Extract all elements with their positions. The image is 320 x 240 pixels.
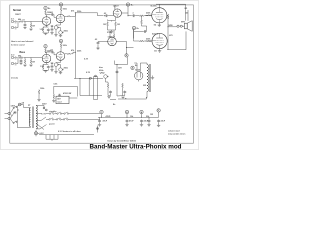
NFB line <box>54 86 78 94</box>
AC plug <box>8 112 10 114</box>
node E <box>125 54 128 57</box>
svg-text:12AX7: 12AX7 <box>113 4 119 7</box>
ground <box>23 27 26 29</box>
ground <box>54 35 57 37</box>
right stack <box>97 126 99 133</box>
ground <box>29 29 32 31</box>
loop wires <box>74 79 103 96</box>
svg-text:In 2: In 2 <box>11 55 14 57</box>
svg-text:470: 470 <box>169 34 172 37</box>
tube V2B <box>56 52 65 61</box>
cap <box>51 65 54 68</box>
resistor mix2 <box>67 53 72 54</box>
svg-text:.02: .02 <box>104 13 107 15</box>
capacitor Cpi <box>105 14 108 17</box>
ground <box>59 72 62 74</box>
cathode cluster <box>43 63 48 64</box>
svg-text:Band-Master Ultra-Phonix mod: Band-Master Ultra-Phonix mod <box>90 144 182 150</box>
wire plate out <box>46 15 51 17</box>
cathode down <box>56 60 61 63</box>
resistor R1 grid <box>19 21 24 23</box>
mid filter <box>116 65 118 97</box>
speaker jack <box>177 25 179 27</box>
svg-text:1M: 1M <box>32 26 35 28</box>
cathode V1B down <box>56 23 61 26</box>
tube V5 6L6 <box>152 8 167 23</box>
jack J1 <box>11 20 16 23</box>
tube V2A <box>42 54 51 63</box>
second chain <box>122 83 124 88</box>
resistor cap chain <box>53 94 55 99</box>
resistor R3 grid-leak <box>30 22 32 24</box>
wire <box>121 6 128 16</box>
svg-text:12AY7: 12AY7 <box>15 13 21 16</box>
resistor mix1 <box>67 16 72 17</box>
node F <box>131 66 134 69</box>
svg-text:6L6GC: 6L6GC <box>152 34 159 36</box>
jack J3 <box>11 56 16 59</box>
svg-text:.02: .02 <box>95 39 98 41</box>
node C <box>126 3 129 6</box>
capacitor C2 coupling <box>51 13 54 16</box>
tube V1B <box>56 14 65 23</box>
riser right <box>133 30 135 39</box>
wires <box>16 58 42 64</box>
main line <box>98 112 159 117</box>
svg-text:Normal: Normal <box>13 10 21 12</box>
svg-text:325V: 325V <box>42 104 47 106</box>
tail resistors <box>108 17 116 21</box>
svg-text:may contain errors: may contain errors <box>168 133 185 136</box>
svg-text:1W: 1W <box>150 114 153 116</box>
svg-text:470Ω 2W: 470Ω 2W <box>63 92 71 95</box>
switch row 1 <box>49 112 54 114</box>
wire to V1B grid <box>54 15 56 18</box>
resistor grid1 <box>146 14 148 16</box>
riser <box>17 108 19 122</box>
wire out right <box>117 42 127 54</box>
PT secondary <box>36 106 37 129</box>
screen bus vertical <box>167 15 168 49</box>
death cap <box>14 111 17 114</box>
svg-text:NFB: NFB <box>169 25 174 27</box>
plate top wire <box>156 4 186 20</box>
svg-text:.02: .02 <box>50 12 53 14</box>
svg-text:power: power <box>49 124 55 126</box>
pot VOL1 <box>54 26 59 30</box>
PT core <box>32 107 34 129</box>
border frame <box>10 5 194 143</box>
svg-text:6.3 V heaters to all tubes: 6.3 V heaters to all tubes <box>58 130 81 133</box>
cap C11 <box>20 59 23 62</box>
svg-text:for best sound: for best sound <box>11 43 25 46</box>
resistor R12 <box>45 48 47 53</box>
PS feed pair <box>94 77 98 100</box>
svg-text:1Ω: 1Ω <box>154 25 157 27</box>
node D <box>132 26 135 29</box>
svg-text:.02: .02 <box>50 50 53 52</box>
wire from node E <box>115 57 128 64</box>
wire to PI <box>75 13 103 16</box>
cap lower path <box>143 30 146 33</box>
resistor R10 <box>19 57 24 59</box>
pot VOL2 <box>54 63 59 67</box>
node A2 <box>59 3 62 6</box>
ground <box>50 33 53 35</box>
svg-text:8Ω: 8Ω <box>185 8 188 10</box>
ground <box>44 33 47 35</box>
cathode ground <box>158 23 160 25</box>
tube V4 PI <box>113 9 121 17</box>
bus bar <box>39 135 94 141</box>
svg-text:6.3V: 6.3V <box>86 72 91 74</box>
ground <box>52 101 55 103</box>
resistor grid leak <box>30 58 32 60</box>
node B1 <box>44 45 47 48</box>
fuse <box>18 103 21 106</box>
NFB box <box>56 96 69 103</box>
stray ground right <box>152 76 154 78</box>
svg-text:How to set mod channel: How to set mod channel <box>11 40 34 43</box>
jack J2 <box>11 26 16 29</box>
resistor plate PI <box>114 5 115 9</box>
cap C3 <box>51 28 54 31</box>
risers above tube <box>110 31 114 38</box>
svg-text:Bass: Bass <box>20 52 26 54</box>
ground <box>50 70 53 72</box>
polarity switch <box>13 122 14 123</box>
pilot lamp <box>34 132 37 135</box>
switch row 2 <box>49 118 54 120</box>
cap drops <box>98 119 101 122</box>
ground <box>19 63 22 65</box>
svg-text:10H: 10H <box>118 68 122 70</box>
wire jacks to grid <box>16 22 42 28</box>
PT HV winding <box>147 65 149 92</box>
speaker <box>184 23 187 29</box>
speaker feed <box>187 10 189 21</box>
wire plate2 out to mix <box>65 13 76 16</box>
vertical coupling lower <box>141 16 143 20</box>
jack J4 <box>11 62 16 65</box>
ground switch <box>13 107 14 108</box>
NFB tap <box>168 26 177 28</box>
tube V3A driver <box>108 37 117 46</box>
svg-text:bias: bias <box>99 67 103 69</box>
resistor plate2 <box>60 43 62 48</box>
plate2 wire long <box>167 31 186 49</box>
cap input <box>98 41 108 43</box>
svg-text:1Ω: 1Ω <box>154 51 157 53</box>
node A1 <box>44 6 47 9</box>
long bus vertical <box>74 13 76 79</box>
resistor R5 plate2 <box>60 6 62 11</box>
junction dot <box>104 15 105 16</box>
svg-text:6.3V: 6.3V <box>40 133 45 135</box>
wire to V2B grid <box>54 52 56 55</box>
svg-text:tremolo: tremolo <box>11 77 19 80</box>
wire PI out right <box>128 15 132 17</box>
ground <box>59 35 62 37</box>
cathode R4 C1 <box>43 25 48 27</box>
cathode ground2 <box>159 49 161 51</box>
wire plate2 out to mix <box>65 52 76 54</box>
wire to 6L6 grid <box>135 14 152 16</box>
svg-text:Drawn by Gerald Weber 6/2015: Drawn by Gerald Weber 6/2015 <box>108 140 137 142</box>
nodes <box>100 110 103 113</box>
resistor R2 plate <box>45 10 47 15</box>
svg-text:6.3V: 6.3V <box>84 59 89 61</box>
capacitor C12 <box>51 51 54 54</box>
svg-text:1M: 1M <box>103 24 106 26</box>
ground <box>54 72 57 74</box>
svg-text:1M: 1M <box>117 24 120 26</box>
outer scan shading <box>0 0 198 149</box>
svg-text:1M: 1M <box>32 62 35 64</box>
capacitor C0 bright <box>24 23 27 26</box>
cluster to tube2 grid <box>134 40 153 42</box>
svg-text:470Ω: 470Ω <box>106 115 111 118</box>
svg-text:12AX7: 12AX7 <box>108 36 114 39</box>
svg-text:6L6GC: 6L6GC <box>151 6 158 8</box>
wire <box>108 15 113 17</box>
rectifier tube <box>135 72 143 80</box>
resistor grid stopper <box>139 15 144 17</box>
tube V6 6L6 <box>152 33 167 48</box>
pot TONE2 <box>59 68 64 72</box>
PT primary <box>29 108 30 126</box>
svg-text:volume mod: volume mod <box>168 131 180 133</box>
node B2 <box>59 39 62 42</box>
ground <box>44 71 47 73</box>
ground <box>23 65 26 67</box>
taps <box>36 106 47 130</box>
svg-text:5E7: 5E7 <box>57 99 60 101</box>
ground <box>29 65 32 67</box>
svg-text:120V: 120V <box>11 106 16 108</box>
pot TONE1 <box>59 31 64 35</box>
resistor R11 <box>24 58 26 60</box>
plate out <box>46 52 51 54</box>
tube V1A <box>42 17 51 26</box>
capacitor Cout1 <box>132 14 135 17</box>
svg-text:standby: standby <box>49 110 57 113</box>
